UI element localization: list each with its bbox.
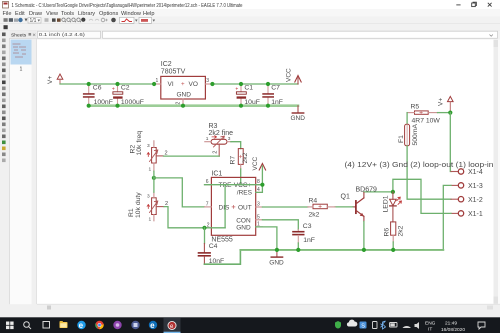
svg-text:CON: CON: [236, 217, 251, 224]
svg-text:GND: GND: [269, 260, 284, 267]
resistor R5: [407, 104, 440, 125]
eagle taskbar icon active: [164, 317, 181, 333]
svg-text:Help: Help: [143, 11, 155, 17]
canvas: [37, 40, 494, 305]
svg-text:2k2: 2k2: [242, 152, 249, 163]
svg-text:C1: C1: [244, 84, 253, 91]
svg-text:Options: Options: [99, 11, 118, 17]
svg-text:X1-2: X1-2: [468, 197, 483, 204]
capacitor C2 polarized: [112, 84, 144, 106]
wire V+ to IC2 pin1: [60, 83, 154, 85]
svg-text:VCC: VCC: [286, 68, 293, 82]
svg-text:e: e: [150, 321, 155, 330]
dark app icon: [131, 321, 139, 329]
svg-text:21:49: 21:49: [445, 321, 457, 327]
svg-text:10k duty: 10k duty: [135, 192, 142, 218]
potentiometer R3 2k2 fine: [205, 123, 233, 156]
svg-text:10k freq: 10k freq: [136, 131, 143, 156]
connector pin X1-1: [451, 211, 483, 218]
svg-text:10uF: 10uF: [244, 99, 260, 106]
IC1 pin 4 /RES: [256, 187, 263, 193]
svg-text:e: e: [79, 321, 84, 330]
capacitor C7: [262, 84, 283, 106]
svg-text:✕: ✕: [32, 33, 36, 38]
transistor Q1 BD679: [341, 186, 378, 221]
svg-text:1: 1: [206, 136, 209, 142]
ground GND bottom: [269, 250, 284, 267]
title bar: [0, 0, 500, 9]
svg-text:2: 2: [176, 102, 182, 105]
ground rail bottom left: [204, 250, 240, 264]
svg-text:3: 3: [147, 143, 150, 149]
supply VCC top: [286, 68, 302, 84]
command / coordinate bar: [0, 31, 500, 40]
fuse F1 500mA: [398, 123, 419, 145]
wire Q1 base: [335, 206, 353, 208]
IC2 pin 2: [176, 99, 184, 106]
svg-text:IC2: IC2: [161, 61, 172, 68]
app icon: [3, 2, 9, 9]
node V+/R5/X1-4: [448, 111, 452, 115]
svg-text:1: 1: [20, 67, 23, 73]
wire F1 down to X1-2: [407, 146, 451, 199]
connector pin X1-4: [451, 169, 483, 176]
svg-text:X1-3: X1-3: [468, 183, 483, 190]
wire R2 wiper to R3 wiper: [164, 155, 220, 157]
svg-text:OUT: OUT: [238, 204, 252, 211]
svg-text:R1: R1: [128, 208, 135, 217]
svg-text:X1-4: X1-4: [468, 169, 483, 176]
wire TRI inside box: [205, 227, 226, 229]
svg-text:C6: C6: [93, 85, 102, 92]
svg-text:Draw: Draw: [29, 11, 43, 17]
svg-text:Sheets: Sheets: [11, 32, 27, 38]
wire C3 to rail: [297, 243, 299, 250]
svg-text:Window: Window: [121, 11, 142, 17]
supply V+ right: [438, 96, 454, 112]
wire R7 to VCC node: [240, 169, 242, 185]
svg-text:DIS: DIS: [219, 204, 231, 211]
purple app icon: [113, 321, 121, 329]
svg-text:7805TV: 7805TV: [161, 69, 186, 76]
svg-text:Q1: Q1: [341, 194, 350, 201]
svg-text:7: 7: [206, 201, 209, 207]
svg-text:2k2: 2k2: [398, 225, 405, 236]
capacitor C4: [198, 243, 225, 265]
IC1 pin 5 CON: [256, 214, 263, 220]
svg-text:(4) 12V+ (3) Gnd (2) loop-out: (4) 12V+ (3) Gnd (2) loop-out (1) loop-i…: [345, 160, 494, 169]
capacitor C1 polarized: [235, 84, 260, 106]
wire R5 to F1: [406, 113, 408, 125]
potentiometer R1 10k duty: [128, 192, 168, 223]
svg-text:1000uF: 1000uF: [121, 99, 144, 106]
svg-text:1: 1: [149, 167, 152, 173]
left tool strip: [0, 31, 10, 304]
tray icons: [335, 320, 419, 330]
IC1 pin 2 TRI: [205, 222, 212, 228]
svg-text:0.1 inch (4.2 4.6): 0.1 inch (4.2 4.6): [39, 32, 85, 38]
svg-text:BD679: BD679: [356, 186, 378, 193]
svg-text:V+: V+: [438, 98, 445, 106]
supply VCC at IC1: [252, 156, 266, 184]
resistor R7: [230, 149, 250, 169]
svg-text:R5: R5: [411, 104, 420, 111]
svg-text:GND: GND: [291, 115, 306, 122]
resistor R4: [308, 197, 335, 218]
wire X1-3 to ground rail: [443, 185, 451, 250]
window buttons: [456, 2, 491, 6]
IC1 pin 1 GND: [256, 221, 263, 227]
junction dots ground rail: [87, 104, 271, 108]
svg-text:Tools: Tools: [61, 11, 74, 17]
IC1 pin 8 VCC+: [256, 179, 263, 185]
svg-text:S: S: [361, 323, 365, 329]
wire OUT to R4: [262, 206, 307, 208]
wire pin4 to VCC node: [256, 185, 263, 193]
wire CON to C3: [262, 220, 298, 230]
status bar: [0, 304, 500, 317]
svg-text:Edit: Edit: [15, 11, 25, 17]
IC1 pin 6 TRE: [205, 179, 212, 185]
wire R5 to V+ node: [438, 112, 451, 114]
svg-text:VCC: VCC: [252, 156, 259, 170]
wire TRI node to C4: [204, 228, 206, 244]
svg-text:2k2: 2k2: [309, 211, 320, 218]
wire R1 wiper to TRI node: [164, 207, 205, 228]
svg-text:/RES: /RES: [237, 190, 253, 197]
svg-text:R3: R3: [209, 123, 218, 130]
svg-text:File: File: [3, 11, 12, 17]
connector pin X1-2: [451, 197, 483, 204]
svg-text:V+: V+: [47, 76, 54, 84]
svg-text:2: 2: [213, 151, 219, 154]
toolbar row 1: [0, 17, 500, 25]
node TRI: [202, 226, 206, 230]
svg-text:F1: F1: [398, 135, 405, 143]
svg-text:GND: GND: [177, 92, 192, 99]
svg-text:R4: R4: [309, 197, 318, 204]
sheet thumbnail (selected): [11, 40, 32, 65]
svg-text:100nF: 100nF: [94, 99, 113, 106]
svg-text:C2: C2: [121, 84, 130, 91]
svg-text:4R7 10W: 4R7 10W: [412, 117, 441, 124]
ground rail top: [89, 104, 298, 107]
edge icon: [77, 321, 85, 330]
svg-text:C3: C3: [303, 223, 312, 230]
svg-text:ENG: ENG: [425, 321, 436, 327]
node VCC/pin8: [260, 183, 264, 187]
resistor R6: [384, 222, 405, 242]
potentiometer R2 10k freq: [130, 131, 168, 173]
svg-text:3: 3: [206, 78, 209, 84]
node LED1/Q1/loop-in: [391, 190, 395, 194]
wire pin1 GND to rail: [256, 227, 277, 250]
start button: [6, 322, 14, 330]
LED LED1: [383, 192, 402, 222]
IC2 pin 1: [154, 78, 161, 84]
wire TRE to VCC node through box: [205, 184, 263, 186]
voltage regulator IC2 7805TV: [161, 61, 206, 99]
svg-text:R7: R7: [230, 156, 237, 165]
wire Q1 emitter to rail: [363, 222, 365, 250]
wire Q1 collector to LED node: [364, 191, 393, 193]
svg-text:1nF: 1nF: [303, 237, 315, 244]
search icon: [24, 322, 31, 329]
svg-text:LED1: LED1: [383, 195, 390, 212]
svg-text:VO: VO: [189, 81, 198, 88]
wire R3 pin3 to R7: [231, 142, 241, 149]
svg-text:IT: IT: [428, 327, 432, 333]
junction dots top rail: [87, 82, 271, 86]
capacitor C6: [83, 84, 113, 106]
capacitor C3: [292, 223, 315, 244]
svg-text:5: 5: [257, 214, 260, 220]
IC1 pin 3 OUT: [256, 202, 263, 208]
svg-text:1 Schematic - C:\Users\Teo\Goo: 1 Schematic - C:\Users\Teo\Google Drive\…: [12, 3, 243, 9]
svg-text:+: +: [235, 87, 238, 93]
svg-text:X1-1: X1-1: [468, 211, 483, 218]
svg-text:Library: Library: [78, 11, 95, 17]
timer IC1 NE555: [211, 170, 255, 243]
svg-text:GND: GND: [236, 225, 251, 232]
wire R2/R1 node to DIS pin: [154, 178, 205, 207]
edge blue icon2: [149, 321, 157, 330]
wire R2 bottom to R1 top: [153, 171, 155, 192]
svg-text:16/08/2020: 16/08/2020: [441, 327, 465, 333]
ground rail bottom right: [240, 249, 443, 251]
svg-text:VI: VI: [168, 81, 174, 88]
node R2/R1 junction: [152, 176, 156, 180]
task view icon: [43, 322, 50, 329]
svg-text:1/1: 1/1: [30, 18, 37, 24]
svg-text:1nF: 1nF: [271, 99, 283, 106]
sheets panel: [10, 31, 37, 39]
wire TRE to TRI tie: [224, 185, 226, 228]
junction dots bottom rail: [275, 248, 396, 252]
svg-text:R6: R6: [384, 228, 391, 237]
toolbar row 2: [0, 24, 500, 31]
IC1 pin 7 DIS: [205, 201, 212, 207]
svg-text:3: 3: [147, 193, 150, 199]
svg-text:C7: C7: [271, 85, 280, 92]
supply V+ left: [47, 74, 63, 84]
svg-text:View: View: [46, 11, 59, 17]
notification: [478, 322, 485, 329]
wire IC2 pin3 to VCC: [212, 83, 298, 85]
connector pin X1-3: [451, 183, 483, 190]
ground GND top right: [291, 106, 306, 122]
svg-text:1: 1: [149, 216, 152, 222]
chrome icon: [95, 321, 104, 329]
svg-text:VCC+: VCC+: [234, 182, 252, 189]
explorer icon: [60, 321, 68, 328]
svg-text:IC1: IC1: [211, 170, 222, 177]
IC2 pin 3: [205, 78, 212, 84]
wire R6 to rail: [392, 242, 394, 250]
svg-text:C4: C4: [209, 243, 218, 250]
wire V+ node down to X1-4: [449, 113, 452, 172]
svg-text:500mA: 500mA: [412, 123, 419, 145]
svg-text:3: 3: [257, 202, 260, 208]
menu bar: [0, 9, 500, 17]
svg-text:+: +: [112, 87, 115, 93]
wire loop-in X1-1 to LED node: [393, 179, 451, 213]
